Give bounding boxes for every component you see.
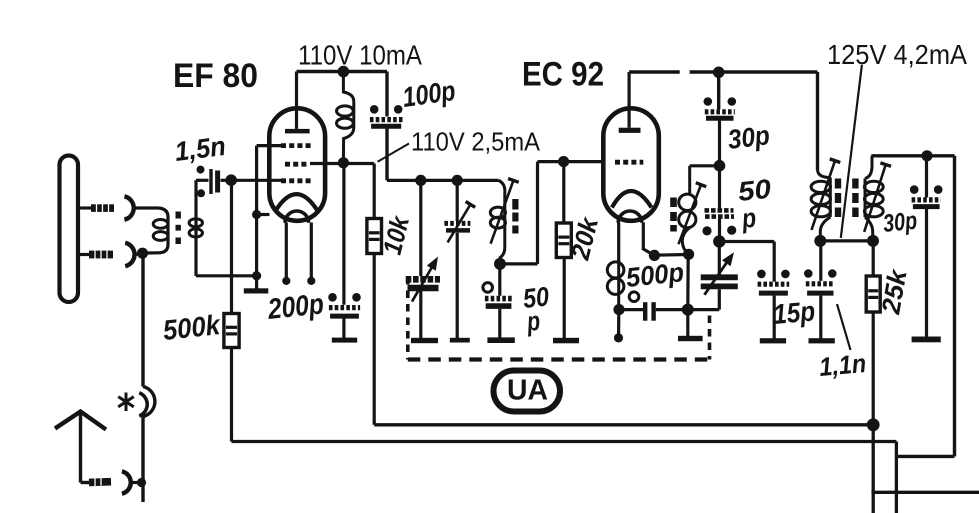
ground bar (200p) [332, 338, 357, 343]
U1 grid g2 row [285, 162, 309, 167]
node J (EC92 grid / 20k) [558, 156, 569, 167]
node O (L4 bottom) [613, 304, 624, 315]
capacitor C8 50p [702, 210, 736, 235]
svg-text:30p: 30p [882, 207, 919, 238]
antenna symbol [55, 412, 106, 483]
wire C3 to ground [342, 316, 345, 338]
wire R1 to bottom rail [230, 348, 233, 442]
dashed gang box left edge [406, 277, 410, 360]
svg-text:EC 92: EC 92 [522, 56, 604, 94]
wire node N down to node P [686, 254, 690, 309]
wire top supply rail (EF80) [297, 70, 388, 73]
C1 end dot lower [197, 189, 205, 197]
wire R3 to ground [563, 258, 566, 339]
wire detector rail [387, 179, 499, 182]
T2 primary winding [811, 170, 830, 241]
footnote asterisk [118, 393, 134, 412]
wire node Q down to C9 [718, 242, 721, 275]
wire C1 to grid node [221, 179, 228, 182]
wire J1 to transformer [133, 206, 158, 209]
variable capacitor C4 plates [406, 279, 440, 288]
ground stub below node D [255, 276, 258, 289]
U1 cathode nose [285, 211, 309, 223]
wire bottom edge [871, 491, 979, 494]
wire C7 down to node M [718, 118, 721, 166]
dashed gang box right edge [708, 316, 712, 360]
tube U1 EF80 envelope [269, 108, 325, 221]
U2 anode lead to top rail [627, 72, 630, 128]
wire g3 drop to cathode node [255, 146, 258, 215]
wire C8 down to node Q [718, 219, 721, 242]
U2 anode plate bar [619, 128, 641, 133]
node R (IF primary bottom) [814, 235, 826, 247]
oscillator coil L2 [490, 180, 505, 264]
plug pin P3 (striped) [89, 478, 111, 487]
wire R4 to rail A [872, 312, 875, 425]
U1 anode lead to top rail [295, 72, 298, 129]
stub end blob [614, 333, 623, 342]
ground bar (EF80 cathode) [244, 288, 268, 293]
wire rail B corner down [895, 442, 898, 513]
capacitor C3 200p [328, 293, 361, 316]
T2 core marks left [835, 179, 841, 218]
resistor R1 500k body [224, 314, 239, 348]
U1 grid g3 row [281, 143, 311, 148]
U1 anode plate bar [285, 129, 310, 134]
node V (antenna tap) [137, 478, 146, 487]
bottom rail B (AGC) [232, 440, 897, 443]
dashed gang box bottom edge [408, 357, 710, 361]
wire node O to C10 [619, 308, 643, 311]
svg-text:500p: 500p [624, 257, 685, 293]
ground bar (C6) [487, 337, 514, 343]
antenna/input connector housing (capsule) [60, 156, 79, 303]
C10 marker circle [629, 292, 639, 302]
wire node Q right [719, 240, 774, 243]
node N (L5 bottom) [683, 249, 694, 260]
C4 tuning arrow [412, 267, 432, 302]
T2 secondary winding [864, 156, 883, 241]
ground bar (R3 20k) [553, 338, 579, 344]
L2 trimmer line [491, 179, 519, 244]
node S (T2 secondary bottom) [867, 235, 879, 247]
ground bar (node P) [678, 336, 703, 341]
pointer line 110V 2,5mA [378, 144, 410, 162]
wire node K to node N [654, 253, 688, 257]
wire EC92 anode rail left part [629, 70, 680, 73]
C6 marker circle [483, 283, 493, 293]
svg-text:15p: 15p [772, 295, 817, 330]
pointer line 125V [841, 65, 862, 238]
wire anode rail down to T2 [816, 72, 819, 170]
wire C5 to ground [456, 233, 459, 338]
capacitor C11 15p [757, 270, 790, 294]
wire C12 to ground [819, 296, 822, 339]
wire rail A down [872, 425, 875, 513]
ground bar (C4) [411, 338, 438, 343]
L5 trimmer line [679, 183, 707, 245]
wire node M down to C8 [718, 166, 721, 209]
node B (grid of EF80) [225, 174, 237, 186]
feedback coil L4 [607, 262, 624, 310]
capacitor C12 1,1n [804, 269, 837, 293]
bottom rail A (decoupled B+) [374, 423, 873, 426]
svg-text:110V 10mA: 110V 10mA [298, 40, 422, 71]
wire right edge vertical [953, 156, 956, 457]
wire node I down to C6 [498, 264, 501, 296]
jack socket J1 (crescent) [124, 196, 133, 219]
wire node R down to C12 [819, 241, 822, 281]
resistor R4 25k body [866, 276, 880, 312]
U1 grid g1 row [281, 178, 312, 183]
wire node C to cathode [257, 213, 270, 216]
U1 pin stub 2 [307, 223, 315, 286]
trimmer capacitor C5 plates [444, 223, 470, 230]
transformer T1 core marks [175, 212, 180, 245]
jack socket J2 (crescent) [125, 243, 134, 266]
wire node T down to C13 [925, 156, 928, 198]
C9 tuning arrow [704, 262, 727, 295]
wire node J down to R3 [562, 162, 565, 223]
node T (C13 top) [921, 150, 932, 161]
U2 cathode nose [618, 211, 642, 223]
capacitor C2 100p [370, 105, 403, 126]
ground bar (C5) [450, 338, 470, 343]
svg-text:1,5n: 1,5n [173, 131, 227, 167]
coil L5 body [679, 166, 696, 255]
wire node H down [456, 180, 459, 221]
wire node G down [419, 180, 422, 276]
wire T2 secondary top rail [871, 154, 954, 157]
wire C13 to ground [925, 207, 928, 337]
capacitor C13 30p [910, 185, 943, 206]
ground bar (C13) [912, 337, 941, 343]
C1 end dot upper [197, 166, 205, 174]
wire node B down to R1 [230, 180, 233, 313]
wire R2 to bottom rail A [373, 254, 376, 425]
ground stub below node P [686, 310, 689, 336]
U2 pin stub to node K [643, 223, 654, 256]
wire rail down right side [385, 72, 388, 117]
pointer line 1,1n [837, 304, 851, 350]
resistor R2 10k body [367, 219, 382, 254]
node U (rail A / 25k) [867, 418, 880, 431]
U1 pin stub 1 [282, 223, 290, 286]
wire node I right [500, 262, 538, 265]
wire C11 to ground [773, 296, 776, 339]
wire node C down to ground node [255, 215, 258, 276]
svg-text:UA: UA [507, 375, 548, 407]
plug pin P1 (striped) [91, 204, 114, 212]
capacitor C7 30p [704, 97, 737, 118]
transformer T1 primary winding [146, 208, 168, 253]
wire g2 to node F to corner [310, 162, 374, 165]
node H (trimmer) [452, 175, 463, 186]
wire C2 to detector rail [385, 126, 388, 180]
footnote paren [139, 393, 147, 416]
wire C6 to ground [498, 309, 501, 338]
wire node F down to C3 [342, 163, 345, 305]
node Q (padder top) [713, 235, 725, 247]
node C (g3/cathode tie) [252, 210, 261, 219]
wire corner down to C11 [773, 242, 776, 282]
T2 primary trimmer line [812, 159, 841, 230]
wire node M left to L5 [690, 164, 720, 167]
ground bar (C12) [809, 338, 835, 343]
L5 core marks [670, 198, 677, 232]
wire node B to EF80 g1 [231, 179, 283, 182]
svg-text:50: 50 [736, 174, 772, 207]
wire right edge corner [896, 455, 954, 458]
svg-text:p: p [740, 203, 758, 234]
svg-text:200p: 200p [266, 288, 326, 326]
svg-text:125V 4,2mA: 125V 4,2mA [827, 39, 967, 70]
wire C4 to ground [419, 289, 422, 338]
svg-text:500k: 500k [161, 309, 222, 346]
node G (tuning cap) [415, 175, 426, 186]
connector stub wire lower [79, 253, 90, 256]
capacitor C10 500p plates (series) [645, 302, 653, 321]
wire EC92 anode rail right part [690, 70, 818, 73]
L2 core marks [512, 199, 518, 234]
U2 grid row [615, 160, 643, 165]
wire up to EC92 grid rail [536, 162, 539, 264]
node F (choke bottom / g2) [338, 157, 349, 168]
wire node L down to C7 [717, 72, 720, 109]
wire node P right to C9 branch [688, 308, 720, 311]
plug pin P2 (striped) [89, 250, 113, 259]
wire EC92 grid rail [538, 160, 602, 163]
node I (osc coil bottom) [494, 258, 506, 270]
T2 secondary trimmer line [864, 163, 891, 232]
resistor R3 20k body [556, 223, 571, 258]
main vertical wire with jump [143, 253, 155, 502]
U2 cathode arc [612, 191, 652, 208]
U1 cathode arc [276, 194, 318, 211]
wire corner down to R2 [373, 164, 376, 219]
UA logo [494, 371, 561, 412]
node K (cathode return) [649, 250, 660, 261]
node P (osc network junction) [682, 304, 694, 316]
svg-text:1,1n: 1,1n [818, 348, 867, 382]
node D (cathode ground) [252, 271, 261, 280]
svg-text:EF 80: EF 80 [173, 57, 258, 95]
wire C10 to node P [656, 308, 688, 311]
wire T1 secondary to C1 [196, 179, 209, 182]
wire T2 bottoms rail [820, 239, 873, 242]
RF choke L1 [337, 72, 354, 163]
stub below node O [617, 310, 620, 335]
T2 core marks right [852, 179, 858, 218]
jack socket J3 (crescent) [122, 471, 131, 493]
tube U2 EC92 envelope [603, 108, 659, 221]
wire T1 secondary bottom to node D [196, 274, 257, 277]
transformer T1 secondary winding [189, 180, 202, 276]
node L (anode rail / C7) [713, 67, 725, 79]
capacitor C1 1,5n plates [211, 169, 218, 194]
U2 cathode pin down [617, 223, 620, 263]
wire J2 to node [134, 252, 142, 256]
ground bar (C11) [760, 338, 786, 343]
wire U1 g3 lead left [257, 144, 283, 147]
svg-text:30p: 30p [726, 120, 771, 155]
capacitor C6 50p plates [485, 299, 512, 307]
svg-text:110V 2,5mA: 110V 2,5mA [411, 127, 541, 157]
wire J3 to main line [131, 481, 141, 484]
connector stub wire upper [79, 206, 92, 209]
wire node S down to R4 [872, 241, 875, 276]
C5 trimmer line [448, 202, 476, 243]
node M (30p / coil feed) [714, 160, 726, 172]
C9 plates [701, 277, 738, 286]
node E (choke top) [338, 66, 350, 78]
node A (T1 primary / J2 junction) [137, 248, 148, 259]
wire C9 bottom to node P [718, 289, 721, 309]
